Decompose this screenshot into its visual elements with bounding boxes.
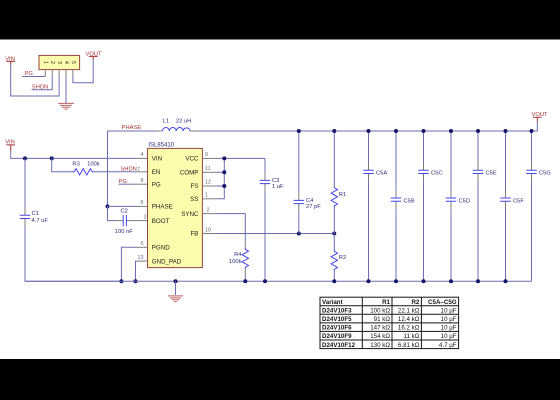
wire C1 column bottom bbox=[25, 226, 121, 281]
pin stub FS pin 12 bbox=[202, 185, 217, 187]
svg-text:1: 1 bbox=[42, 61, 48, 64]
wire PHASE node bbox=[108, 131, 156, 206]
svg-text:10 µF: 10 µF bbox=[441, 308, 457, 315]
svg-text:C5D: C5D bbox=[459, 198, 471, 204]
junction R1/top rail bbox=[332, 129, 336, 133]
svg-text:VCC: VCC bbox=[185, 156, 199, 163]
pin stub COMP pin 11 bbox=[202, 171, 217, 173]
svg-text:SHDN: SHDN bbox=[32, 85, 48, 91]
svg-text:1: 1 bbox=[205, 193, 208, 199]
svg-text:3: 3 bbox=[144, 214, 147, 220]
svg-text:147 kΩ: 147 kΩ bbox=[370, 325, 390, 332]
wire GND (connector pin 4) bbox=[65, 77, 67, 104]
svg-text:D24V10F3: D24V10F3 bbox=[322, 308, 352, 315]
junction PGND/rail bbox=[119, 279, 123, 283]
svg-text:12.4 kΩ: 12.4 kΩ bbox=[398, 316, 420, 323]
svg-text:11: 11 bbox=[205, 166, 211, 172]
svg-text:4.7 uF: 4.7 uF bbox=[32, 218, 49, 224]
svg-text:C5F: C5F bbox=[513, 198, 524, 204]
wire PG stub bbox=[119, 183, 135, 185]
resistor R3 bbox=[72, 162, 99, 175]
wire R1 bottom to FB bbox=[333, 208, 335, 234]
svg-text:2: 2 bbox=[49, 61, 55, 64]
capacitor C5D bbox=[446, 129, 470, 283]
svg-text:PHASE: PHASE bbox=[152, 204, 173, 211]
junction COMP bbox=[222, 170, 226, 174]
svg-text:Variant: Variant bbox=[322, 299, 343, 306]
svg-text:10 µF: 10 µF bbox=[441, 325, 457, 332]
wire C3 column bbox=[264, 158, 266, 173]
wire VCC to vertical bbox=[217, 157, 265, 159]
svg-text:1 uF: 1 uF bbox=[272, 184, 284, 190]
wire R2 bottom bbox=[333, 271, 335, 281]
svg-text:100 nF: 100 nF bbox=[115, 229, 134, 235]
capacitor C4 bbox=[294, 193, 322, 211]
junction C4/top rail bbox=[297, 129, 301, 133]
wire VOUT top rail bbox=[200, 122, 537, 132]
svg-text:ISL85410: ISL85410 bbox=[148, 143, 174, 149]
capacitor C5F bbox=[500, 129, 524, 283]
svg-text:5: 5 bbox=[141, 200, 144, 206]
svg-text:SYNC: SYNC bbox=[181, 211, 199, 218]
svg-text:PG: PG bbox=[25, 71, 34, 77]
svg-text:27 pF: 27 pF bbox=[306, 204, 321, 210]
pin stub SYNC pin 2 bbox=[202, 213, 217, 215]
wire VIN rail bbox=[11, 151, 135, 158]
svg-text:D24V10F5: D24V10F5 bbox=[322, 316, 352, 323]
wire ground stub bbox=[175, 281, 177, 295]
svg-text:11 kΩ: 11 kΩ bbox=[404, 333, 420, 340]
svg-text:6: 6 bbox=[141, 241, 144, 247]
svg-text:COMP: COMP bbox=[180, 170, 199, 177]
supply flag VOUT (connector) bbox=[86, 51, 103, 60]
wire PGND to ground rail bbox=[121, 247, 135, 281]
resistor R1 bbox=[331, 186, 346, 208]
wire PG net (connector pin 1) bbox=[22, 76, 45, 78]
svg-text:8: 8 bbox=[141, 178, 144, 184]
wire R3 to EN pin bbox=[94, 171, 135, 173]
junction VIN/C1 bbox=[23, 156, 27, 160]
svg-text:SHDN: SHDN bbox=[120, 167, 136, 173]
wire C4 column top bbox=[298, 131, 300, 193]
svg-text:16.2 kΩ: 16.2 kΩ bbox=[398, 325, 420, 332]
svg-text:10 µF: 10 µF bbox=[441, 316, 457, 323]
pin stub PHASE pin 5 bbox=[135, 205, 148, 207]
svg-text:3: 3 bbox=[56, 61, 62, 64]
IC U1 ISL85410 bbox=[137, 143, 211, 268]
junction FS bbox=[222, 184, 226, 188]
svg-text:PGND: PGND bbox=[152, 245, 170, 252]
svg-text:12: 12 bbox=[205, 180, 211, 186]
junction rail/ground symbol bbox=[174, 279, 178, 283]
svg-text:D24V10F12: D24V10F12 bbox=[322, 342, 356, 349]
pin stub FB pin 10 bbox=[202, 233, 217, 235]
svg-text:PG: PG bbox=[152, 181, 161, 188]
supply flag VIN (connector) bbox=[5, 56, 15, 65]
svg-text:R2: R2 bbox=[339, 255, 346, 261]
wire SYNC to R4 bbox=[217, 214, 245, 240]
svg-text:100k: 100k bbox=[87, 162, 100, 168]
wire PHASE pin connect bbox=[108, 205, 135, 207]
svg-text:9: 9 bbox=[205, 152, 208, 158]
svg-text:22.1 kΩ: 22.1 kΩ bbox=[398, 308, 420, 315]
wire FS bbox=[217, 185, 224, 187]
svg-text:C2: C2 bbox=[121, 208, 128, 214]
pin stub VCC pin 9 bbox=[202, 157, 217, 159]
svg-text:2: 2 bbox=[207, 207, 210, 213]
pin stub PG pin 8 bbox=[135, 183, 148, 185]
wire C3 bottom bbox=[264, 191, 266, 281]
wire FB net bbox=[217, 233, 334, 235]
svg-text:C5A: C5A bbox=[376, 171, 387, 177]
wire PHASE to C2 bbox=[108, 206, 116, 220]
capacitor C5E bbox=[473, 129, 497, 283]
svg-text:R2: R2 bbox=[411, 299, 419, 306]
junction PHASE pin bbox=[106, 204, 110, 208]
pin stub GND_PAD pin 13 bbox=[138, 260, 148, 262]
wire C4 bottom bbox=[298, 211, 300, 234]
capacitor C5A bbox=[363, 129, 387, 283]
capacitor C5B bbox=[391, 129, 415, 283]
junction FB/R1-R2 bbox=[332, 232, 336, 236]
svg-text:4: 4 bbox=[63, 61, 69, 64]
pin stub EN pin 7 bbox=[135, 171, 148, 173]
capacitor C3 bbox=[260, 173, 284, 191]
capacitor C2 bbox=[115, 208, 135, 235]
resistor R2 bbox=[331, 250, 346, 272]
svg-text:SS: SS bbox=[190, 196, 198, 203]
svg-text:GND_PAD: GND_PAD bbox=[152, 258, 182, 265]
svg-text:VIN: VIN bbox=[5, 139, 15, 145]
svg-text:10 µF: 10 µF bbox=[441, 333, 457, 340]
junction VIN/R3 bbox=[50, 156, 54, 160]
inductor L1 bbox=[156, 119, 201, 131]
svg-text:7: 7 bbox=[137, 167, 140, 173]
svg-text:L1: L1 bbox=[163, 119, 169, 125]
junction C3/rail bbox=[263, 279, 267, 283]
svg-text:100 kΩ: 100 kΩ bbox=[370, 308, 390, 315]
supply flag VOUT (main) bbox=[532, 112, 549, 122]
junction FB/C4 bbox=[297, 232, 301, 236]
junction GND_PAD/rail bbox=[134, 279, 138, 283]
resistor R4 bbox=[229, 240, 249, 275]
supply flag VIN (main) bbox=[5, 139, 15, 151]
capacitor C5G bbox=[526, 129, 551, 281]
svg-text:D24V10F9: D24V10F9 bbox=[322, 333, 352, 340]
wire GND_PAD to ground rail bbox=[136, 261, 139, 281]
wire COMP bbox=[217, 171, 224, 173]
svg-text:4: 4 bbox=[141, 152, 144, 158]
svg-text:91 kΩ: 91 kΩ bbox=[374, 316, 391, 323]
svg-text:C1: C1 bbox=[32, 211, 39, 217]
svg-text:VOUT: VOUT bbox=[532, 112, 549, 118]
svg-text:D24V10F6: D24V10F6 bbox=[322, 325, 352, 332]
capacitor C1 bbox=[20, 208, 49, 226]
ground symbol (main) bbox=[168, 296, 183, 302]
wire SHDN net (connector pin 2) bbox=[32, 77, 53, 90]
pin stub BOOT pin 3 bbox=[135, 220, 148, 222]
junction R2/rail bbox=[332, 279, 336, 283]
svg-text:C5B: C5B bbox=[404, 198, 415, 204]
wire R1 column top bbox=[333, 131, 335, 186]
pin stub PGND pin 6 bbox=[135, 246, 148, 248]
svg-text:FB: FB bbox=[190, 231, 198, 238]
svg-text:6.81 kΩ: 6.81 kΩ bbox=[398, 342, 420, 349]
svg-text:VIN: VIN bbox=[152, 156, 162, 163]
wire VIN net (connector pin 3) bbox=[11, 65, 59, 96]
svg-text:C5A–C5G: C5A–C5G bbox=[428, 299, 457, 306]
junction R4/rail bbox=[243, 279, 247, 283]
svg-text:154 kΩ: 154 kΩ bbox=[370, 333, 390, 340]
svg-text:22 uH: 22 uH bbox=[176, 119, 191, 125]
svg-text:C5G: C5G bbox=[539, 171, 551, 177]
wire R4 bottom bbox=[244, 275, 246, 281]
ground symbol (connector) bbox=[58, 103, 74, 109]
wire R2 top from FB bbox=[333, 234, 335, 250]
svg-text:EN: EN bbox=[152, 169, 161, 176]
pin stub SS pin 1 bbox=[202, 198, 217, 200]
svg-text:PHASE: PHASE bbox=[122, 125, 142, 131]
wire SHDN drop from VIN rail bbox=[52, 158, 73, 171]
wire VOUT net (connector pin 5) bbox=[73, 60, 93, 83]
wire C1 column top bbox=[24, 158, 26, 207]
svg-text:C5E: C5E bbox=[486, 171, 497, 177]
svg-text:10: 10 bbox=[205, 227, 211, 233]
ground rail (bottom) bbox=[25, 280, 532, 282]
connector JP1 body bbox=[39, 55, 80, 69]
svg-text:BOOT: BOOT bbox=[152, 218, 170, 225]
wire SS to vertical bbox=[217, 158, 224, 198]
pin stub VIN pin 4 bbox=[135, 157, 148, 159]
svg-text:130 kΩ: 130 kΩ bbox=[370, 342, 390, 349]
svg-text:FS: FS bbox=[190, 183, 198, 190]
svg-text:100k: 100k bbox=[229, 259, 242, 265]
svg-text:R1: R1 bbox=[382, 299, 390, 306]
svg-text:C5C: C5C bbox=[431, 171, 443, 177]
svg-text:VIN: VIN bbox=[5, 56, 15, 62]
svg-text:4.7 µF: 4.7 µF bbox=[439, 342, 457, 349]
junction VCC bbox=[222, 156, 226, 160]
svg-text:5: 5 bbox=[70, 61, 76, 64]
svg-text:R1: R1 bbox=[339, 192, 346, 198]
svg-text:VOUT: VOUT bbox=[86, 51, 103, 57]
svg-text:R3: R3 bbox=[72, 162, 79, 168]
svg-text:13: 13 bbox=[138, 255, 144, 261]
svg-text:R4: R4 bbox=[234, 252, 242, 258]
connector pin stubs bbox=[45, 70, 73, 77]
capacitor C5C bbox=[418, 129, 442, 283]
